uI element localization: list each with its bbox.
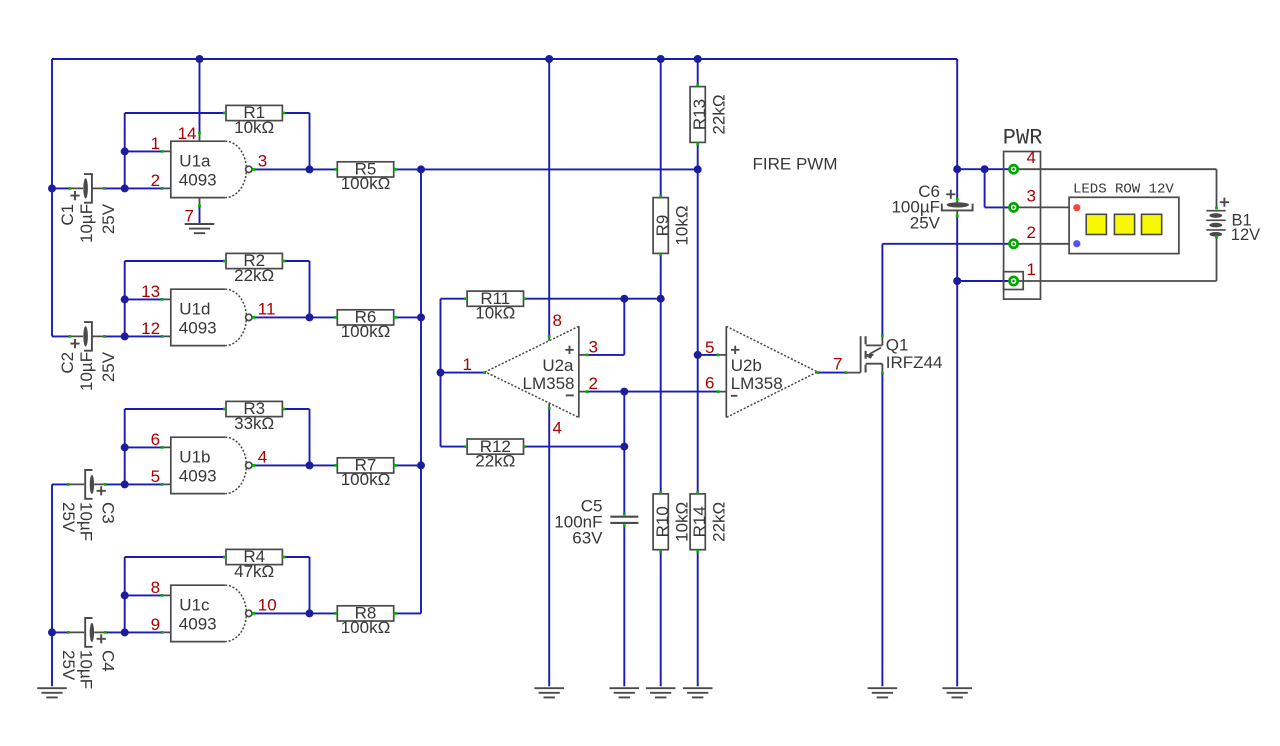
svg-text:LM358: LM358	[523, 374, 575, 393]
svg-text:11: 11	[258, 299, 276, 318]
svg-text:12: 12	[141, 319, 160, 338]
svg-text:U2b: U2b	[731, 356, 762, 375]
svg-text:12V: 12V	[1231, 226, 1260, 244]
svg-text:R14: R14	[690, 506, 709, 537]
svg-text:R10: R10	[653, 506, 672, 537]
svg-text:3: 3	[1027, 186, 1036, 205]
svg-text:22kΩ: 22kΩ	[710, 502, 729, 542]
svg-text:25V: 25V	[59, 502, 78, 533]
svg-text:R13: R13	[690, 99, 709, 130]
svg-text:100kΩ: 100kΩ	[341, 618, 391, 637]
svg-text:10kΩ: 10kΩ	[234, 118, 274, 137]
svg-text:4: 4	[553, 419, 562, 438]
svg-text:10µF: 10µF	[77, 502, 96, 541]
svg-text:4: 4	[258, 447, 267, 466]
svg-text:10µF: 10µF	[77, 204, 96, 243]
svg-text:10kΩ: 10kΩ	[475, 304, 515, 323]
svg-text:4093: 4093	[179, 615, 217, 634]
svg-text:22kΩ: 22kΩ	[710, 94, 729, 134]
svg-text:10µF: 10µF	[77, 650, 96, 689]
svg-text:13: 13	[141, 282, 160, 301]
svg-text:8: 8	[553, 311, 562, 330]
svg-text:PWR: PWR	[1003, 126, 1043, 151]
svg-text:33kΩ: 33kΩ	[234, 414, 274, 433]
svg-text:IRFZ44: IRFZ44	[886, 353, 943, 372]
svg-text:1: 1	[151, 134, 160, 153]
svg-text:2: 2	[151, 171, 160, 190]
svg-text:5: 5	[151, 467, 160, 486]
svg-text:10kΩ: 10kΩ	[673, 502, 692, 542]
svg-text:22kΩ: 22kΩ	[475, 451, 515, 470]
svg-text:3: 3	[589, 338, 598, 357]
svg-text:5: 5	[705, 338, 714, 357]
svg-text:100kΩ: 100kΩ	[341, 470, 391, 489]
svg-text:25V: 25V	[99, 203, 118, 234]
svg-text:6: 6	[151, 430, 160, 449]
svg-text:7: 7	[185, 207, 194, 226]
svg-text:2: 2	[1027, 223, 1036, 242]
svg-text:25V: 25V	[99, 351, 118, 382]
svg-text:C2: C2	[58, 352, 77, 374]
svg-text:U1d: U1d	[179, 299, 210, 318]
svg-text:U2a: U2a	[542, 356, 574, 375]
svg-text:4: 4	[1027, 148, 1036, 167]
svg-text:22kΩ: 22kΩ	[234, 266, 274, 285]
svg-text:1: 1	[1027, 260, 1036, 279]
svg-text:10µF: 10µF	[77, 352, 96, 391]
svg-text:6: 6	[705, 374, 714, 393]
svg-text:9: 9	[151, 615, 160, 634]
svg-text:25V: 25V	[910, 213, 941, 232]
svg-text:10: 10	[258, 595, 277, 614]
svg-text:100kΩ: 100kΩ	[341, 174, 391, 193]
svg-text:25V: 25V	[59, 650, 78, 681]
svg-text:C3: C3	[98, 502, 117, 524]
svg-text:63V: 63V	[572, 529, 603, 548]
svg-text:3: 3	[258, 151, 267, 170]
svg-text:47kΩ: 47kΩ	[234, 562, 274, 581]
svg-text:4093: 4093	[179, 319, 217, 338]
svg-text:7: 7	[833, 354, 842, 373]
svg-text:Q1: Q1	[886, 335, 909, 354]
svg-text:LEDS ROW 12V: LEDS ROW 12V	[1073, 181, 1174, 197]
svg-text:C1: C1	[58, 204, 77, 226]
svg-text:U1c: U1c	[179, 595, 210, 614]
svg-text:4093: 4093	[179, 467, 217, 486]
svg-text:1: 1	[463, 355, 472, 374]
svg-text:LM358: LM358	[731, 374, 783, 393]
svg-text:100kΩ: 100kΩ	[341, 322, 391, 341]
svg-text:C4: C4	[98, 650, 117, 672]
svg-text:R9: R9	[653, 215, 672, 237]
svg-text:8: 8	[151, 578, 160, 597]
svg-text:U1a: U1a	[179, 151, 211, 170]
svg-text:4093: 4093	[179, 171, 217, 190]
svg-text:FIRE PWM: FIRE PWM	[753, 154, 838, 173]
svg-text:2: 2	[589, 374, 598, 393]
svg-text:10kΩ: 10kΩ	[673, 205, 692, 245]
svg-text:U1b: U1b	[179, 447, 210, 466]
svg-text:14: 14	[178, 124, 197, 143]
